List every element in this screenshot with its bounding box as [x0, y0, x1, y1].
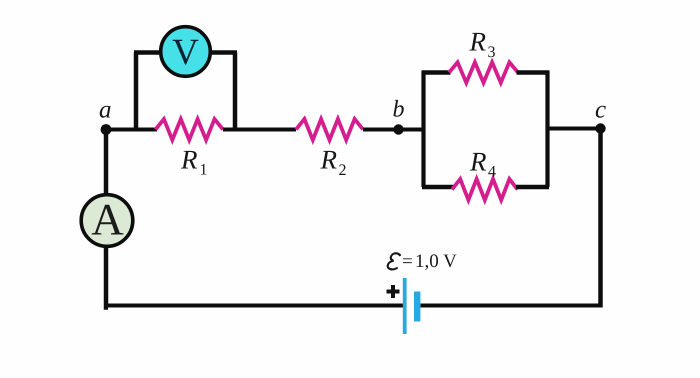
svg-text:3: 3	[488, 44, 496, 61]
resistor R1	[156, 119, 224, 140]
voltmeter branch left vertical wire	[134, 53, 139, 130]
wire right vertical c to bottom	[598, 129, 603, 308]
svg-text:A: A	[91, 195, 124, 245]
battery short plate	[414, 292, 420, 322]
resistor R4	[452, 179, 518, 200]
svg-text:V: V	[172, 32, 199, 73]
svg-text:b: b	[393, 97, 405, 123]
wire voltmeter right lead	[210, 50, 237, 55]
svg-text:R: R	[320, 145, 338, 175]
R2 value label	[320, 145, 347, 180]
svg-text:a: a	[99, 97, 112, 124]
wire node b to parallel box	[399, 128, 425, 132]
wire top main a to R1	[106, 128, 157, 132]
svg-text:2: 2	[339, 162, 347, 179]
wire parallel box top left lead	[422, 70, 451, 75]
wire R2 to parallel box	[363, 128, 424, 132]
wire parallel box to node c	[547, 127, 601, 131]
svg-text:R: R	[469, 27, 487, 57]
svg-text:4: 4	[488, 164, 496, 181]
ammeter A	[81, 195, 133, 247]
wire parallel box bottom left lead	[422, 185, 454, 190]
wire ammeter to bottom left corner	[106, 247, 108, 308]
EMF value label	[387, 251, 457, 272]
svg-text:1,0 V: 1,0 V	[415, 251, 457, 272]
wire R1 to R2	[223, 128, 296, 132]
node a label	[99, 97, 112, 124]
node b label	[393, 97, 405, 123]
voltmeter V	[161, 27, 211, 77]
wire parallel box left vertical	[421, 71, 425, 188]
resistor R3	[449, 62, 518, 82]
node c	[595, 123, 605, 133]
node a	[101, 124, 112, 135]
svg-text:=: =	[402, 251, 413, 272]
wire battery to bottom right corner	[421, 304, 603, 308]
svg-text:R: R	[469, 147, 487, 177]
battery long plate	[403, 278, 407, 334]
svg-text:c: c	[595, 97, 606, 124]
svg-text:R: R	[180, 145, 198, 175]
wire parallel box right vertical	[545, 71, 549, 188]
R1 value label	[180, 145, 208, 179]
battery plus sign	[387, 285, 400, 298]
resistor R2	[296, 119, 363, 140]
node c label	[595, 97, 606, 124]
wire parallel box bottom right lead	[516, 185, 549, 190]
svg-text:1: 1	[200, 162, 208, 179]
node b	[393, 124, 403, 134]
R3 value label	[469, 27, 496, 62]
wire voltmeter left lead	[134, 50, 161, 55]
voltmeter branch right vertical wire	[233, 53, 238, 130]
wire parallel box top right lead	[517, 70, 550, 75]
wire left vertical a to ammeter	[104, 130, 109, 195]
R4 value label	[469, 147, 496, 181]
wire bottom left to battery	[104, 304, 403, 308]
